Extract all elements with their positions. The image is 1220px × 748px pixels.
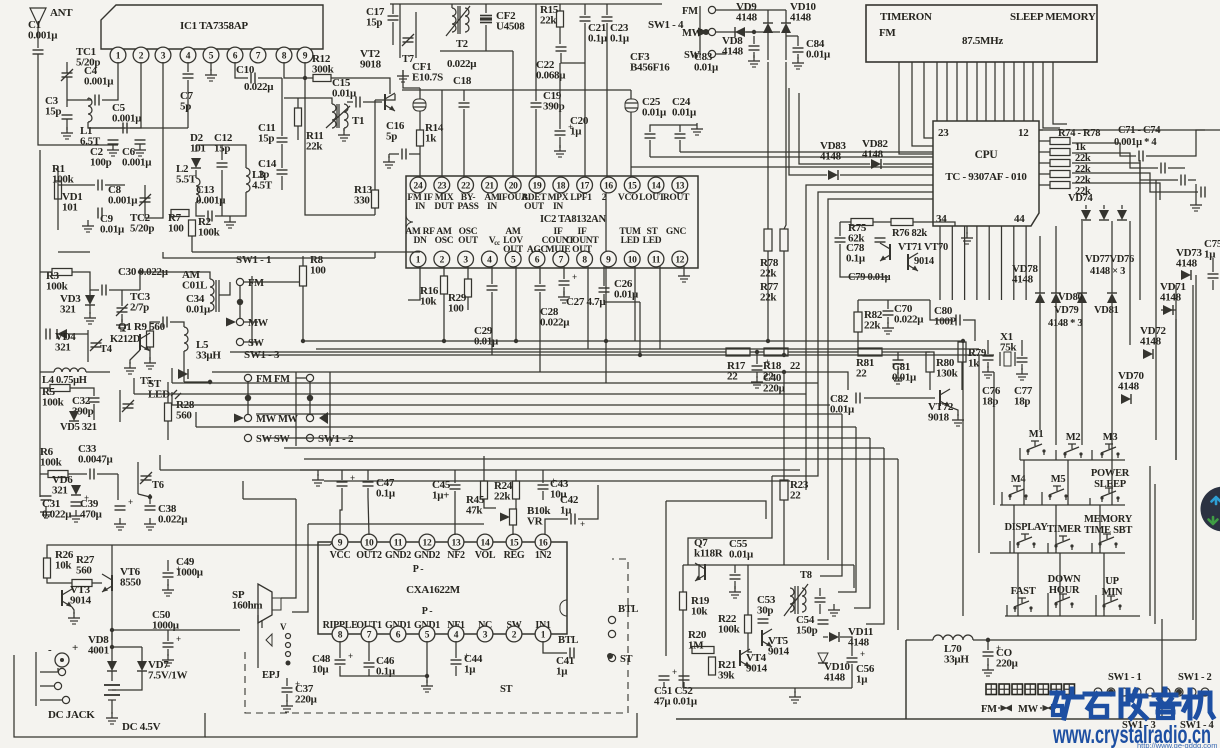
IC1 pin 1 xyxy=(110,47,126,63)
IC2 pin 1 xyxy=(410,251,426,267)
svg-text:100: 100 xyxy=(448,302,464,314)
wire xyxy=(584,23,586,185)
wire xyxy=(819,604,821,614)
wire xyxy=(716,31,730,33)
capacitor C77 xyxy=(1017,357,1028,359)
wire xyxy=(368,497,369,535)
wire xyxy=(753,52,755,58)
svg-text:22k: 22k xyxy=(760,267,777,279)
resistor R17 xyxy=(726,348,750,356)
svg-text:IN: IN xyxy=(487,202,497,212)
svg-text:K212D: K212D xyxy=(110,334,141,345)
wire xyxy=(375,94,395,100)
wire xyxy=(222,145,246,168)
wire xyxy=(403,70,420,88)
svg-text:1: 1 xyxy=(416,255,421,265)
diode VD10 xyxy=(781,23,791,33)
wire xyxy=(756,352,758,364)
verticals below CPU xyxy=(939,226,941,300)
crystal X1 xyxy=(1004,352,1011,366)
diode VD6 xyxy=(71,485,81,495)
wire xyxy=(679,140,681,152)
svg-text:M3: M3 xyxy=(1103,432,1118,443)
wire xyxy=(539,292,541,372)
svg-text:22k: 22k xyxy=(306,140,323,152)
svg-text:1μ: 1μ xyxy=(1204,248,1216,260)
AM osc coil xyxy=(210,279,214,311)
svg-text:5p: 5p xyxy=(180,100,191,112)
wire xyxy=(57,168,59,230)
svg-text:4148: 4148 xyxy=(820,150,842,162)
wire xyxy=(559,63,561,129)
svg-text:8: 8 xyxy=(582,255,587,265)
wire xyxy=(330,542,333,545)
trim cap TC3 xyxy=(117,307,128,309)
svg-text:SW1 - 1: SW1 - 1 xyxy=(1108,672,1142,683)
ground xyxy=(1021,368,1023,374)
capacitor at pin4 xyxy=(487,285,498,287)
svg-text:T4: T4 xyxy=(100,344,113,355)
wire xyxy=(783,251,785,355)
IC1 pin 5 xyxy=(203,47,219,63)
svg-text:0.001μ: 0.001μ xyxy=(122,156,152,168)
wire xyxy=(846,351,858,353)
svg-text:87.5MHz: 87.5MHz xyxy=(962,35,1003,47)
svg-text:33μH: 33μH xyxy=(196,349,221,361)
wire xyxy=(196,202,205,216)
svg-text:7: 7 xyxy=(559,255,564,265)
CPU TC-9307AF-010 box xyxy=(933,121,1039,226)
wire xyxy=(40,387,50,389)
node xyxy=(752,30,756,34)
svg-text:ROUT: ROUT xyxy=(663,193,690,203)
svg-text:CPU: CPU xyxy=(975,149,999,161)
C25 to CPU wire xyxy=(650,156,933,158)
wire xyxy=(297,98,299,108)
bus long 7 xyxy=(304,458,898,460)
IC2 pin 18 xyxy=(553,177,569,193)
IC2 pin 5 xyxy=(505,251,521,267)
transistor Q7 xyxy=(704,564,706,580)
svg-text:4: 4 xyxy=(186,51,191,61)
IC1 pin 4 xyxy=(180,47,196,63)
resistor R13 xyxy=(372,190,379,208)
svg-text:C18: C18 xyxy=(453,75,472,87)
resistor R80 xyxy=(926,352,934,372)
capacitor C2 xyxy=(108,139,119,141)
wire xyxy=(512,51,514,90)
svg-text:0.001μ: 0.001μ xyxy=(84,75,114,87)
CXA pin 12 xyxy=(419,534,435,550)
svg-text:5: 5 xyxy=(511,255,516,265)
svg-text:1k: 1k xyxy=(425,132,437,144)
op-amp IC1 TA7358AP box xyxy=(101,5,323,49)
svg-text:+: + xyxy=(765,357,770,367)
wire xyxy=(539,266,541,284)
svg-text:0.001μ: 0.001μ xyxy=(28,29,58,41)
capacitor C19 xyxy=(531,102,542,104)
svg-text:470μ: 470μ xyxy=(80,508,103,520)
svg-text:100: 100 xyxy=(310,264,326,276)
wire xyxy=(121,290,123,306)
CXA pin 6 xyxy=(390,626,406,642)
svg-text:4148: 4148 xyxy=(862,148,884,160)
svg-text:1μ: 1μ xyxy=(856,673,868,685)
DC jack body xyxy=(40,668,58,672)
wire xyxy=(699,6,701,58)
svg-text:4148: 4148 xyxy=(1176,257,1198,269)
capacitor C81 xyxy=(893,359,904,361)
svg-text:0.1μ: 0.1μ xyxy=(376,487,396,499)
svg-text:0.01μ: 0.01μ xyxy=(729,548,754,560)
wire xyxy=(286,694,288,702)
resistor R82 xyxy=(854,312,862,332)
wire xyxy=(748,633,752,652)
DC jack plug xyxy=(55,653,69,667)
svg-text:1μ: 1μ xyxy=(556,665,568,677)
svg-text:1k: 1k xyxy=(1075,142,1086,153)
wire xyxy=(1039,173,1050,175)
resistor R20 xyxy=(692,647,714,654)
capacitor C1 xyxy=(33,49,44,51)
capacitor C74 xyxy=(1200,187,1202,198)
switch BTL top xyxy=(608,616,615,623)
svg-text:FM: FM xyxy=(682,6,698,17)
svg-text:UP: UP xyxy=(1105,576,1119,587)
wire xyxy=(559,27,561,44)
wire xyxy=(767,33,769,60)
key POWER SLEEP xyxy=(1101,498,1103,502)
svg-text:+: + xyxy=(572,272,577,282)
band diagram arrows xyxy=(1001,705,1008,711)
switch BTL mid xyxy=(608,630,615,637)
CXA pin 16 xyxy=(535,534,551,550)
svg-text:100k: 100k xyxy=(40,456,63,468)
capacitor C40 xyxy=(752,365,763,367)
ground xyxy=(987,664,989,670)
wire xyxy=(789,88,827,175)
switch SW1-2 FM xyxy=(306,374,313,381)
ground xyxy=(286,700,288,706)
wire xyxy=(946,62,948,121)
CXA pin 1 xyxy=(535,626,551,642)
vertical keys a xyxy=(962,341,964,616)
svg-text:4148: 4148 xyxy=(1012,273,1034,285)
wire xyxy=(578,485,598,519)
capacitor C46 xyxy=(364,662,375,664)
capacitor C73 xyxy=(1180,175,1182,186)
svg-text:101: 101 xyxy=(62,201,78,213)
ground xyxy=(112,144,114,150)
svg-text:11: 11 xyxy=(652,255,661,265)
CXA pin 15 xyxy=(506,534,522,550)
resistor R74 xyxy=(1050,138,1070,145)
IC2 pin 17 xyxy=(577,177,593,193)
wire xyxy=(247,382,249,414)
capacitor C7 xyxy=(183,73,194,75)
svg-text:http://www.ge-qddg.com: http://www.ge-qddg.com xyxy=(1137,741,1217,748)
resistor R21 xyxy=(709,657,716,675)
svg-text:14: 14 xyxy=(481,538,490,548)
svg-text:MEMORY: MEMORY xyxy=(1084,514,1133,525)
CF3 to CPU wire xyxy=(631,166,933,168)
wire xyxy=(630,112,632,185)
ground xyxy=(402,70,404,76)
svg-text:1k: 1k xyxy=(968,357,980,369)
capacitor C54 xyxy=(818,619,829,621)
wire xyxy=(485,4,487,13)
wire xyxy=(187,62,189,72)
wire xyxy=(402,89,631,91)
svg-text:GNC: GNC xyxy=(666,227,687,237)
ground xyxy=(734,586,736,592)
bus h3 xyxy=(252,354,994,356)
svg-text:8: 8 xyxy=(282,51,287,61)
CXA pin 4 xyxy=(448,626,464,642)
svg-text:4148: 4148 xyxy=(824,671,846,683)
wire xyxy=(281,144,283,168)
wire xyxy=(195,170,197,178)
svg-text:0.1μ: 0.1μ xyxy=(846,252,866,264)
wire xyxy=(563,266,565,279)
wire xyxy=(663,682,665,688)
filter CF1 xyxy=(413,99,426,111)
diode VD83 xyxy=(828,170,838,180)
capacitor C83 cap xyxy=(749,45,760,47)
transformer T4 xyxy=(91,342,102,344)
switch SW1-2 SW xyxy=(306,434,313,441)
svg-text:34: 34 xyxy=(936,213,947,225)
svg-text:22k: 22k xyxy=(494,490,511,502)
key wires vert4 xyxy=(1006,605,1008,616)
key M2 xyxy=(1064,454,1066,458)
IC2 pin 11 xyxy=(648,251,664,267)
wire xyxy=(170,322,184,327)
key grid v3 xyxy=(1017,553,1019,616)
wire xyxy=(1039,129,1043,131)
svg-text:C27 4.7μ: C27 4.7μ xyxy=(566,296,606,308)
CXA pin 7 xyxy=(361,626,377,642)
svg-text:22: 22 xyxy=(856,367,867,379)
svg-text:0.001μ: 0.001μ xyxy=(108,194,138,206)
wire xyxy=(121,314,123,322)
IC2 pin 10 xyxy=(624,251,640,267)
capacitor C4 xyxy=(94,95,96,106)
svg-text:0.01μ: 0.01μ xyxy=(332,87,357,99)
switch SW1-3 common xyxy=(245,395,251,401)
ground xyxy=(559,145,561,151)
wire xyxy=(559,4,561,11)
left stub a xyxy=(171,368,173,383)
left stub b xyxy=(133,378,135,394)
wire xyxy=(913,222,955,226)
capacitor C40e xyxy=(115,505,126,507)
svg-text:SLEEP MEMORY: SLEEP MEMORY xyxy=(1010,11,1096,23)
resistor R5 xyxy=(50,385,70,392)
svg-text:+: + xyxy=(860,649,865,659)
IC2 pin 19 xyxy=(529,177,545,193)
wire xyxy=(535,4,537,90)
IC2 pin 20 xyxy=(505,177,521,193)
capacitor C47 xyxy=(363,481,374,483)
vwires tall xyxy=(1129,221,1131,345)
IC2 pin 21 xyxy=(482,177,498,193)
switch SW1-4 common xyxy=(703,29,709,35)
ground xyxy=(343,129,345,135)
resistor R22 xyxy=(745,615,752,633)
wire xyxy=(72,607,74,614)
capacitor C6 xyxy=(135,139,146,141)
diode VD4 xyxy=(57,329,67,339)
wire xyxy=(167,560,169,571)
bus stair 1 xyxy=(483,456,485,470)
wire xyxy=(455,666,457,676)
wire xyxy=(839,222,841,236)
bus drop 7 xyxy=(866,448,884,624)
wire xyxy=(317,470,319,476)
wire xyxy=(347,101,353,103)
bus drop 5 xyxy=(838,427,856,592)
resistor R79 xyxy=(958,342,966,362)
wire xyxy=(606,4,608,15)
svg-text:+: + xyxy=(580,519,585,529)
svg-text:22: 22 xyxy=(790,361,800,372)
transformer T6 xyxy=(141,475,152,477)
svg-text:E10.7S: E10.7S xyxy=(412,71,443,83)
wire xyxy=(167,421,169,440)
svg-text:+: + xyxy=(176,634,181,644)
svg-text:+: + xyxy=(672,667,677,677)
diode VD7 xyxy=(137,661,147,671)
wire xyxy=(864,397,935,399)
svg-text:22k: 22k xyxy=(1075,153,1091,164)
diode VD10b xyxy=(818,653,828,663)
ground xyxy=(45,506,47,512)
wire xyxy=(484,499,496,508)
wire xyxy=(987,362,989,368)
wire xyxy=(66,119,68,130)
wire xyxy=(1168,167,1185,169)
wire xyxy=(93,404,95,420)
wire xyxy=(374,208,376,215)
svg-text:4148 * 3: 4148 * 3 xyxy=(1048,318,1082,329)
wire long right xyxy=(1039,129,1220,131)
svg-text:300k: 300k xyxy=(312,63,335,75)
wire xyxy=(111,630,113,661)
wire xyxy=(542,491,544,500)
svg-text:33μH: 33μH xyxy=(944,653,969,665)
wire xyxy=(150,322,160,331)
ground xyxy=(149,518,151,524)
svg-text:12: 12 xyxy=(675,255,684,265)
wire xyxy=(987,640,989,650)
wire xyxy=(109,289,140,291)
resistor R27 xyxy=(72,580,92,587)
svg-text:4148: 4148 xyxy=(1140,335,1162,347)
wire xyxy=(840,637,852,640)
svg-text:1000μ: 1000μ xyxy=(176,566,204,578)
svg-text:0.022μ: 0.022μ xyxy=(158,513,188,525)
wire xyxy=(392,4,394,14)
capacitor C51 xyxy=(659,675,670,677)
svg-text:0.022μ: 0.022μ xyxy=(447,58,477,70)
EPJ feed wire xyxy=(292,524,308,612)
IC2 pin 13 xyxy=(672,177,688,193)
node xyxy=(755,350,759,354)
svg-text:0.01μ: 0.01μ xyxy=(830,403,855,415)
key DOWN HOUR xyxy=(1055,604,1057,608)
svg-text:ANT: ANT xyxy=(50,7,73,19)
svg-text:k118R: k118R xyxy=(694,547,724,559)
transformer T2 xyxy=(452,8,456,32)
svg-text:24: 24 xyxy=(414,181,423,191)
wire xyxy=(296,377,306,379)
wire xyxy=(145,62,163,218)
svg-text:0.0047μ: 0.0047μ xyxy=(78,453,113,465)
wire xyxy=(66,62,68,73)
wire xyxy=(419,88,421,99)
capacitor C3 xyxy=(62,114,73,116)
capacitor C43 xyxy=(538,484,549,486)
inductor L70 xyxy=(933,635,973,640)
svg-text:20: 20 xyxy=(509,181,518,191)
svg-text:5: 5 xyxy=(425,630,430,640)
svg-text:560: 560 xyxy=(176,409,192,421)
resistor R26 xyxy=(44,558,51,578)
svg-text:220μ: 220μ xyxy=(295,693,318,705)
wire xyxy=(535,109,537,185)
capacitor C21 xyxy=(580,16,591,18)
ground xyxy=(753,55,755,61)
wire xyxy=(167,382,169,403)
ceramic filter CF2 xyxy=(480,15,492,17)
wire xyxy=(388,154,390,158)
pin16 column drop xyxy=(605,193,607,251)
wire xyxy=(734,565,736,573)
IC2 pin 12 xyxy=(672,251,688,267)
wire xyxy=(130,350,140,364)
transistor VT3 xyxy=(61,590,63,606)
wire xyxy=(485,25,487,51)
svg-text:22k: 22k xyxy=(760,291,777,303)
wire xyxy=(794,688,796,693)
capacitor C11 xyxy=(277,137,288,139)
svg-text:330: 330 xyxy=(354,194,370,206)
svg-text:12: 12 xyxy=(1018,127,1029,139)
svg-text:15p: 15p xyxy=(366,16,382,28)
svg-text:15p: 15p xyxy=(45,105,61,117)
wire xyxy=(603,266,605,286)
capacitor C15 xyxy=(355,97,357,108)
transistor VT72 xyxy=(939,390,941,406)
wire xyxy=(767,10,769,23)
Q7 block left wire xyxy=(682,565,684,592)
IC1 pin 3 xyxy=(155,47,171,63)
resistor R16 xyxy=(441,276,448,294)
resistor R77 xyxy=(780,229,788,251)
filter CF3 xyxy=(625,99,638,112)
key FAST xyxy=(1014,608,1016,612)
IC2 pin 16 xyxy=(601,177,617,193)
wire xyxy=(799,93,870,164)
watermark chinese 机 xyxy=(1188,690,1193,718)
svg-text:15: 15 xyxy=(628,181,637,191)
wire xyxy=(515,499,517,509)
wire xyxy=(1072,143,1136,156)
svg-text:30p: 30p xyxy=(757,604,773,616)
ground xyxy=(388,156,390,162)
vert right rail xyxy=(1195,275,1197,640)
